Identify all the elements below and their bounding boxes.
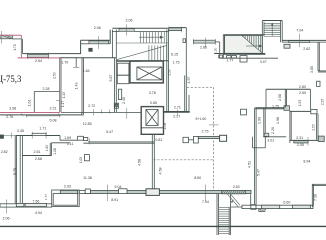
svg-text:3.47: 3.47 [260,60,267,64]
svg-text:1.69: 1.69 [64,136,71,140]
wall H y135.5 [16,135,32,137]
stair lower flight risers [148,45,150,60]
svg-text:2.31: 2.31 [296,136,303,140]
stair shaft TR right wall [280,21,282,43]
stair up arrow TR [271,25,273,36]
room mid-right top wall [289,110,311,112]
wall H y140.2 [60,139,78,141]
window bottom right a [262,205,280,208]
wall vertical x219.7 [219,42,221,58]
svg-text:3.85: 3.85 [310,66,314,73]
svg-text:1.43: 1.43 [74,83,78,90]
room bottom-left inner [53,194,77,206]
svg-text:0.81: 0.81 [155,138,162,142]
tick on pink wall y100 [56,99,59,101]
pink unit bottom boundary [0,112,60,114]
svg-text:2.71: 2.71 [174,105,181,109]
svg-text:2.08: 2.08 [278,94,282,101]
dashed line vertical [213,87,215,190]
stair arrow TR [246,45,260,47]
small rooms top wall [116,60,141,62]
wall V x152 double [151,134,153,190]
wall H2 y89.3 [266,88,310,90]
wall V2a x266 [265,89,267,108]
elevator U1 shaft outer [130,61,163,83]
svg-text:2.21: 2.21 [50,106,57,110]
wall H6 y136.8 [263,136,286,138]
svg-text:2.75: 2.75 [202,129,209,133]
svg-text:3.58: 3.58 [9,106,16,110]
svg-text:2.06: 2.06 [163,123,167,130]
svg-text:5.08: 5.08 [50,119,57,123]
wall V4 x310.5 [310,89,312,109]
wall V x21 double [19,136,21,204]
svg-text:1.77: 1.77 [226,58,233,62]
svg-text:5.47: 5.47 [106,130,113,134]
landing room fill [225,35,263,53]
stair shaft TR top wall [262,20,282,22]
svg-text:Ц-75,3: Ц-75,3 [0,74,21,85]
gray block below stair TR [284,44,290,48]
stair hall top band [112,27,168,29]
dashed cross tick [209,124,218,126]
svg-text:1.70: 1.70 [61,61,68,65]
dimension line y135 left [3,134,16,136]
svg-text:2.53: 2.53 [167,69,171,75]
step wall right of stair [251,207,259,209]
room mid-right left wall [289,111,291,143]
duct below landing [240,56,247,62]
wall H3 y107.8 [255,107,284,109]
wall V x255.4 [254,108,256,205]
dimension line 5.08 [26,115,59,117]
window strip 2.66 [193,40,215,43]
svg-text:2.06: 2.06 [3,216,10,220]
fixture blocks below landing [219,55,223,58]
elevator U1 cab with X [137,67,162,80]
pink unit right boundary vertical [59,58,61,113]
svg-text:0.85: 0.85 [150,101,157,105]
svg-text:2.25: 2.25 [321,99,325,105]
svg-text:4.94: 4.94 [35,211,42,215]
wc fixture right [194,136,199,143]
wall vertical x189.7 [188,95,190,112]
svg-text:5.87: 5.87 [109,75,113,82]
svg-text:1.61: 1.61 [28,100,32,107]
window top room615 [169,28,182,31]
bottom wall left band [0,204,52,207]
svg-text:2.68: 2.68 [35,157,42,161]
stair lower flight diagonal [117,45,167,59]
dimension tick 1.84 [73,66,80,68]
wall H y142.6 corridor [88,141,154,143]
column box small [241,109,247,115]
stair lower flight diagonal TR [241,35,263,54]
svg-text:1.70: 1.70 [13,44,17,50]
wall inner room left vertical [33,91,35,112]
pink unit right vertical of bay [20,35,22,58]
dimension tick 8.91 [107,185,109,202]
stair treads TR [264,22,281,24]
svg-text:7.04: 7.04 [202,200,209,204]
dashed line horizontal upper [187,87,214,89]
wall top y27.6 [169,27,187,29]
room 6.15 right wall [184,75,186,111]
window in corridor top band [27,54,48,57]
wire top-left bay wall with window [0,35,12,39]
dimension tick stair window [126,24,128,35]
pink unit lower horizontal [18,57,60,59]
dimension tick 7.04 [299,34,301,48]
shaft box below H6 [252,137,254,148]
dimension tick 7.04b [204,185,206,202]
wall right wing y71 [318,70,326,72]
svg-text:1.77: 1.77 [44,194,48,200]
landing room bottom wall [214,53,265,55]
svg-text:7.36: 7.36 [313,194,317,201]
svg-text:2.50: 2.50 [53,72,57,79]
wall y58.2 segment [220,57,278,59]
small room upper-left [117,63,129,75]
elevator U2 shaft outer [141,107,163,135]
svg-text:2.40: 2.40 [122,97,126,104]
room bottom-left outer [52,190,79,207]
fixture box lobby bottom [114,103,118,108]
pier at strip left [183,39,186,43]
svg-text:2.53: 2.53 [233,185,240,189]
hatch window band [222,190,246,193]
wall top right y42.1 lower [282,41,288,43]
svg-text:4.58: 4.58 [159,168,163,175]
svg-text:5.75: 5.75 [13,168,17,175]
svg-text:3.01: 3.01 [267,139,274,143]
door ticks corridor [101,110,103,114]
elevator U2 inner line [141,127,163,129]
wall lower edge of bay band [81,43,89,45]
stair up arrow [139,36,164,38]
tick x90 [89,139,91,145]
svg-text:2.80: 2.80 [299,85,306,89]
wall corridor y112 right [164,111,190,113]
window long band b [119,189,127,194]
svg-text:2.28: 2.28 [43,87,50,91]
dimension slashes on bottom wall [21,113,23,116]
wall V6 x286 [284,89,286,108]
wall V2b x263.8 double [263,108,265,137]
svg-text:1.13: 1.13 [62,92,66,98]
svg-text:2.06: 2.06 [94,26,101,30]
svg-text:12.85: 12.85 [83,122,92,126]
small room lower-left [117,75,129,84]
door small rect [84,137,88,140]
svg-text:2.62: 2.62 [303,47,310,51]
wall room H y155.5 [22,155,51,157]
door hinge mark [89,48,92,51]
bottom wall right band [242,205,313,208]
long wall band [79,190,251,193]
dimension tick window mid-right [307,137,309,146]
door gap in band [79,190,85,193]
wall H y143 right of room [52,142,71,144]
svg-text:4.51: 4.51 [247,161,251,168]
svg-text:5.47: 5.47 [256,169,260,176]
svg-text:2.66: 2.66 [200,45,207,49]
wall V x16 down [14,136,16,204]
svg-text:7.56: 7.56 [32,200,39,204]
wall room V x50.8 [49,143,51,156]
dimension tick left bay [1,31,3,44]
svg-text:2.72: 2.72 [88,104,95,108]
svg-text:1.60: 1.60 [45,145,49,152]
fixture box bottom-right [318,136,324,141]
wc fixture left [183,137,189,142]
wall corridor divider x82.5 [81,58,83,115]
svg-text:3.45: 3.45 [17,129,24,133]
stair BC right wall [228,207,230,235]
svg-text:2.61: 2.61 [34,150,41,154]
white box in band [251,205,256,210]
gray band wall y137 [198,136,219,138]
shaft rect small [84,155,89,161]
stair hall bottom wall [116,60,168,62]
T-block at x152 [146,189,159,196]
door jamb x76 [75,58,77,68]
svg-text:1.05: 1.05 [79,157,83,163]
box right of stair [260,206,265,210]
svg-text:1.93: 1.93 [298,100,302,106]
svg-text:2.55: 2.55 [297,143,304,147]
svg-text:2.64: 2.64 [35,59,42,63]
svg-text:1.99: 1.99 [257,117,261,124]
duct shaft below lobby [118,89,121,99]
room mid-right bottom wall [289,139,318,141]
wall corridor bottom y112.4 [61,111,141,113]
wall corridor top band dark lower [60,57,117,59]
wall bay right vertical [109,30,111,44]
svg-text:2.53: 2.53 [312,124,316,130]
wall top right y40.4 [282,39,326,41]
wall step-up vertical at x80 [80,40,82,53]
wall corridor top band dark upper [23,53,82,55]
svg-text:8.91: 8.91 [111,198,118,202]
window long band a [85,189,90,194]
svg-text:2.20: 2.20 [271,127,275,134]
wall unit bottom dark [0,114,83,116]
svg-text:6.15: 6.15 [171,53,178,57]
stair BC arrow [231,200,234,204]
svg-text:1.71: 1.71 [39,127,46,131]
door rect corridor [78,136,84,140]
svg-text:3.11: 3.11 [67,142,74,146]
svg-text:7.04: 7.04 [296,28,303,32]
wall H y135.5 b [46,135,60,137]
window room bl [60,190,77,193]
svg-text:1.28: 1.28 [53,148,57,155]
svg-text:2.06: 2.06 [126,18,133,22]
wall right wing vertical x318.5 [317,42,319,71]
wall inner room top [34,90,59,92]
svg-text:8.60: 8.60 [194,176,201,180]
window block H3 area [284,106,289,111]
svg-text:2.27: 2.27 [173,114,180,118]
svg-text:2.93: 2.93 [64,184,71,188]
svg-text:8.94: 8.94 [303,160,310,164]
svg-text:1.84: 1.84 [83,69,90,73]
room mid-right right wall [316,114,318,140]
svg-text:1.20: 1.20 [214,48,218,54]
svg-text:5.60: 5.60 [283,200,290,204]
wall bay top horizontal [81,39,111,41]
window bottom right b [292,205,310,208]
wall H y184.3 [312,183,326,185]
stair BC left wall [216,194,218,235]
window block on H135 [32,133,46,135]
stair upper flight risers [139,32,141,44]
svg-text:1.17: 1.17 [61,101,65,107]
wall stub left edge [0,135,3,138]
svg-text:11.38: 11.38 [83,176,92,180]
svg-text:2.69: 2.69 [299,91,306,95]
tick corridor 2.27 [177,110,179,116]
column box right edge [317,81,320,86]
wall right x313 [311,184,313,207]
svg-text:4.97: 4.97 [187,77,191,84]
svg-text:5.04: 5.04 [115,185,122,189]
stair BC treads [219,207,230,209]
elevator U2 cab with X [146,110,158,126]
wall V3 x285.3 [286,89,288,108]
dashed line horizontal lower [154,159,214,161]
stair lower flight risers TR [242,35,244,37]
room right of stair BC [231,206,251,208]
stair BC upper diagonal [228,194,239,207]
window bottom b [25,203,46,206]
dimension tick 2.66 [204,38,206,48]
window top right [289,41,310,43]
svg-text:5+1.60: 5+1.60 [195,117,206,121]
landing room top wall [223,34,264,36]
svg-text:4.58: 4.58 [138,159,142,166]
svg-text:1.75: 1.75 [173,61,180,65]
svg-text:1.98: 1.98 [276,117,280,124]
window band upper bay [89,41,109,44]
stair hall left wall double [111,30,113,58]
window small left wall [264,133,269,136]
window bottom a [16,203,24,206]
ground line bottom [0,225,326,227]
stair flight bottom edge [116,42,168,44]
stair shaft TR left wall [261,21,263,54]
window stair top [119,29,134,32]
svg-text:3.78: 3.78 [149,91,156,95]
dimension tick window bay [98,36,100,49]
landing room left wall [222,35,224,59]
svg-text:2.76: 2.76 [6,115,13,119]
stair hall right wall double [166,30,168,113]
white box column [220,135,227,141]
svg-text:2.82: 2.82 [1,150,8,154]
dimension tick 2.06 bottom [5,200,7,214]
